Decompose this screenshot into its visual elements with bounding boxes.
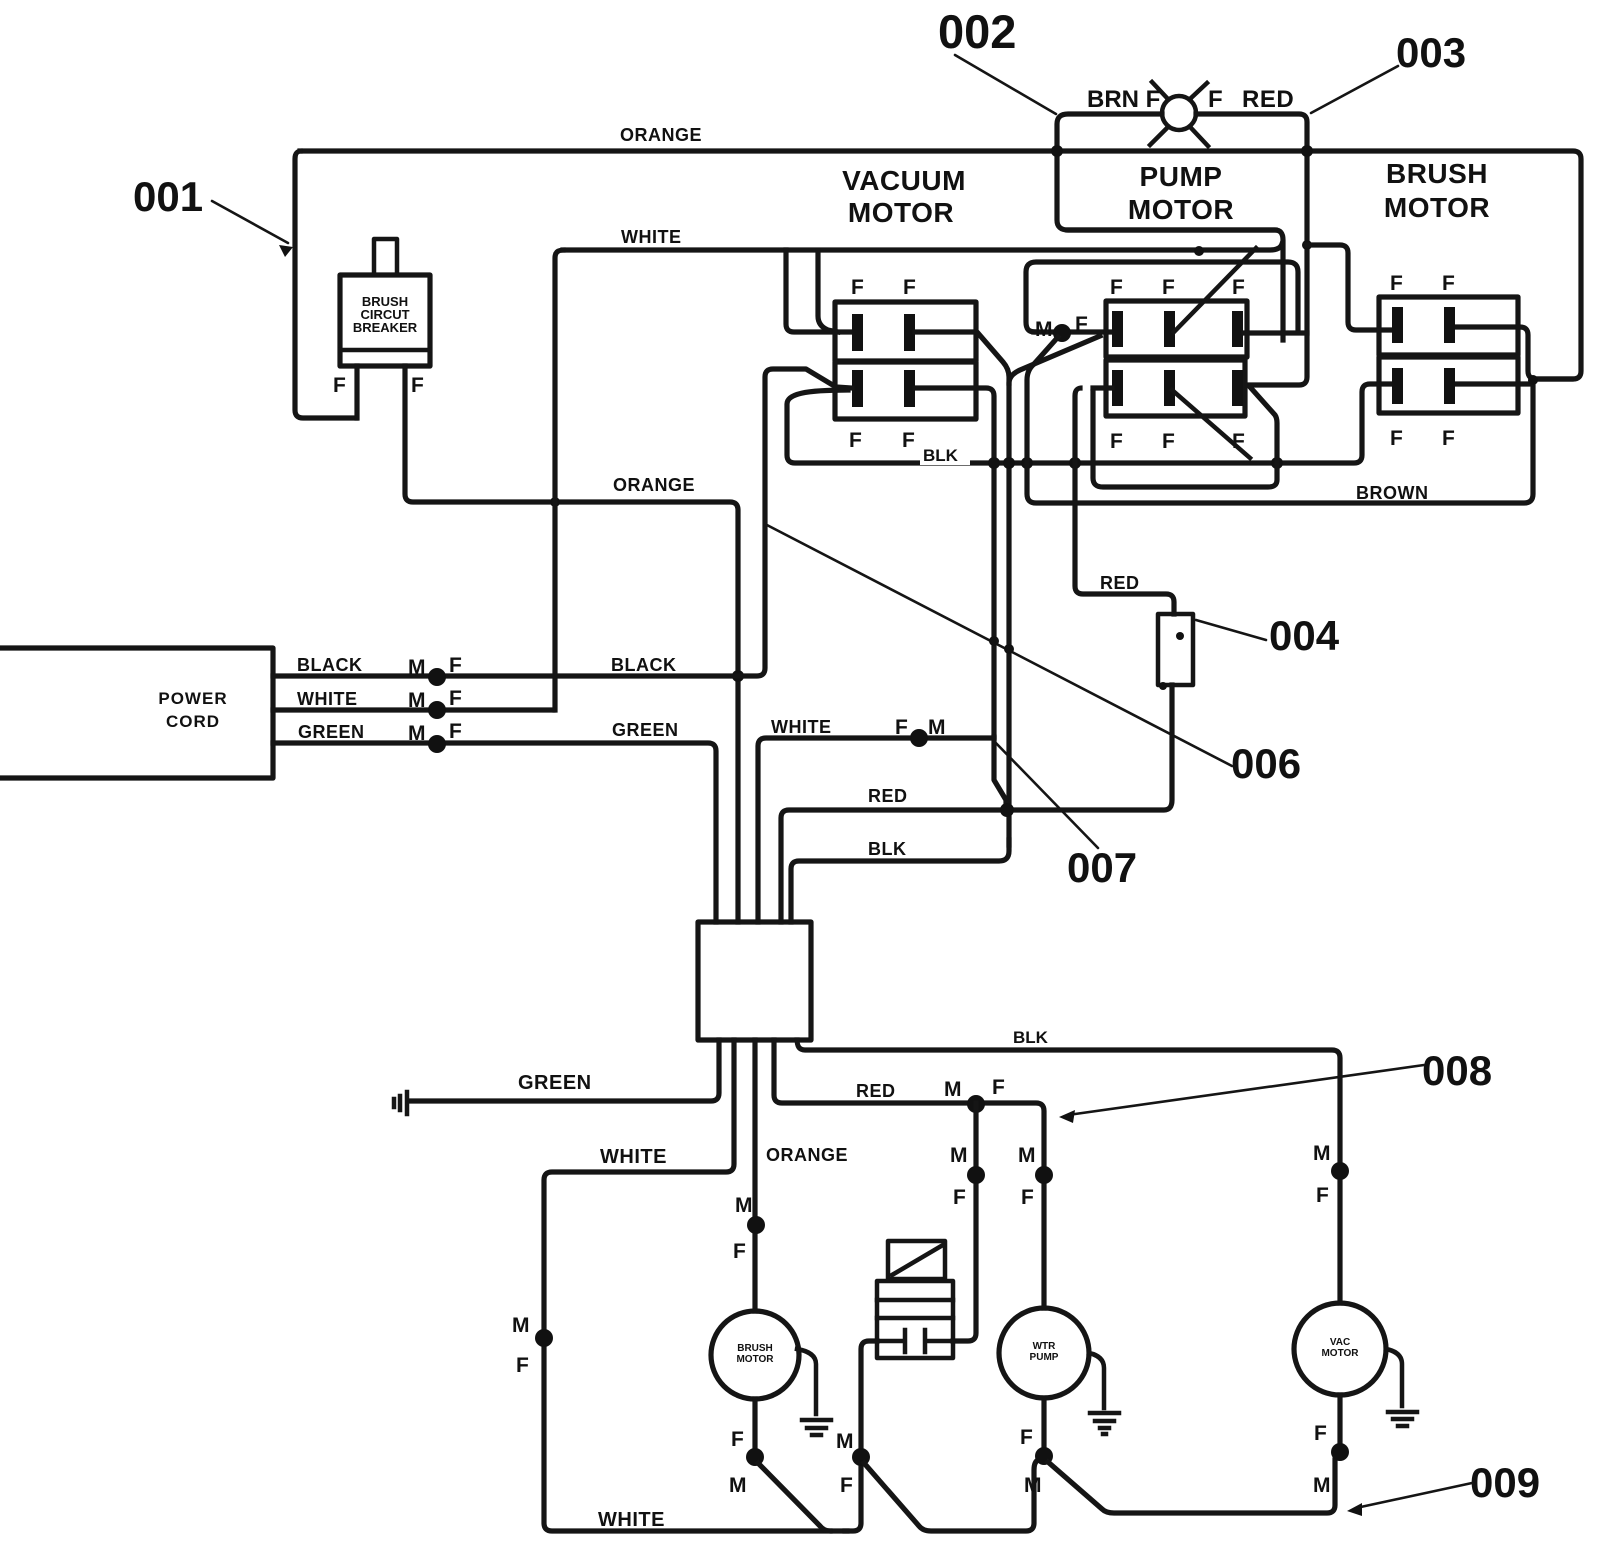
svg-text:RED: RED (1100, 573, 1140, 593)
junction brown top (1528, 375, 1538, 385)
svg-text:MOTOR: MOTOR (1128, 194, 1234, 225)
wire white from power cord (273, 707, 553, 712)
svg-text:M: M (408, 722, 426, 745)
svg-text:002: 002 (938, 5, 1016, 58)
wire vacuum LR lead (915, 388, 994, 737)
wire pump lower container (1093, 387, 1277, 487)
svg-text:F: F (840, 1474, 853, 1497)
svg-text:BRUSH: BRUSH (737, 1343, 773, 1354)
svg-text:F: F (1020, 1426, 1033, 1449)
junction orange-white crossing (550, 497, 560, 507)
svg-text:M: M (1018, 1144, 1036, 1167)
ground G3 (1090, 1413, 1119, 1434)
diagonal D1 brown from M dot (1027, 337, 1533, 503)
svg-text:GREEN: GREEN (298, 722, 365, 742)
svg-text:M: M (408, 689, 426, 712)
svg-text:M: M (1024, 1474, 1042, 1497)
svg-text:F: F (449, 720, 462, 743)
svg-text:WHITE: WHITE (621, 227, 682, 247)
power cord box (0, 648, 273, 778)
junction lamp-left x orange bus (1051, 145, 1063, 157)
svg-text:POWER: POWER (158, 689, 227, 708)
svg-text:F: F (1442, 427, 1455, 450)
svg-text:F: F (895, 716, 908, 739)
wire pump upper middle diagonal (1174, 248, 1256, 332)
ground G4 (1388, 1412, 1417, 1426)
svg-text:ORANGE: ORANGE (766, 1145, 848, 1165)
wire brush diagonal to rail (758, 1463, 830, 1531)
svg-text:MOTOR: MOTOR (1384, 192, 1490, 223)
svg-text:ORANGE: ORANGE (620, 125, 702, 145)
svg-text:BLK: BLK (1013, 1028, 1049, 1047)
svg-text:RED: RED (868, 786, 908, 806)
svg-text:RED: RED (1242, 86, 1294, 113)
wire blk mid (791, 840, 1009, 922)
svg-text:VAC: VAC (1330, 1337, 1350, 1348)
svg-text:BLACK: BLACK (297, 655, 363, 675)
svg-text:BREAKER: BREAKER (353, 320, 418, 335)
wire brush lower right lead (1456, 381, 1531, 386)
motor pump circle (999, 1308, 1089, 1398)
svg-text:BLK: BLK (923, 446, 959, 465)
connector dot red bottom (967, 1095, 985, 1113)
svg-text:008: 008 (1422, 1047, 1492, 1094)
svg-text:PUMP: PUMP (1140, 161, 1223, 192)
svg-text:MOTOR: MOTOR (736, 1354, 774, 1365)
junction orange-black crossing (732, 670, 744, 682)
callout 009 leader (1356, 1483, 1472, 1508)
svg-text:WTR: WTR (1033, 1341, 1057, 1352)
svg-text:M: M (944, 1078, 962, 1101)
wire red bottom (774, 1040, 1044, 1308)
vacuum switch lower box (835, 362, 976, 419)
pump contact bars lower (1112, 370, 1123, 406)
svg-text:F: F (1208, 86, 1223, 113)
svg-text:F: F (449, 654, 462, 677)
svg-text:F: F (731, 1428, 744, 1451)
vacuum contact bar UR (904, 314, 915, 351)
solenoid capacitor plates (877, 1330, 953, 1352)
svg-text:ORANGE: ORANGE (613, 475, 695, 495)
connector dot pump M F (1053, 324, 1071, 342)
svg-text:BROWN: BROWN (1356, 483, 1429, 503)
svg-text:F: F (333, 374, 346, 397)
svg-text:F: F (992, 1076, 1005, 1099)
wire pump motor right to ground (1089, 1353, 1104, 1408)
wire pump lower left lead (1093, 385, 1112, 390)
svg-text:009: 009 (1470, 1459, 1540, 1506)
wire vac motor right to ground (1386, 1349, 1402, 1406)
wire vacuum UR lead (915, 332, 1009, 845)
svg-text:F: F (851, 276, 864, 299)
callout 008 leader (1068, 1065, 1424, 1115)
svg-text:M: M (950, 1144, 968, 1167)
pump outer container top (1068, 227, 1275, 232)
wire white mid F M (758, 738, 994, 922)
wire white top (555, 250, 563, 710)
svg-text:M: M (408, 656, 426, 679)
svg-text:WHITE: WHITE (771, 717, 832, 737)
svg-text:F: F (849, 429, 862, 452)
callout 007 leader (992, 739, 1098, 848)
wire solenoid left branch (845, 1341, 877, 1531)
svg-text:BRN F: BRN F (1087, 86, 1160, 113)
wire pump lower middle diagonal (1172, 390, 1250, 458)
solenoid valve body (877, 1281, 953, 1358)
ground G2 (802, 1420, 831, 1435)
wire orange top bus (300, 151, 1581, 379)
svg-text:F: F (953, 1186, 966, 1209)
svg-text:M: M (729, 1474, 747, 1497)
wire pump diagonal to right rail (1048, 1460, 1335, 1513)
svg-text:F: F (902, 429, 915, 452)
vacuum contact bar UL (852, 314, 863, 351)
svg-text:F: F (1075, 313, 1088, 336)
wire brush motor bottom (752, 1399, 757, 1452)
circuit breaker CB1 body (340, 275, 430, 366)
svg-text:F: F (1021, 1186, 1034, 1209)
svg-text:WHITE: WHITE (598, 1509, 665, 1531)
connector dot green (428, 735, 446, 753)
svg-text:F: F (1316, 1184, 1329, 1207)
wire container branch into vacuum switch (818, 251, 838, 332)
wire x994 lower jog (994, 737, 1006, 808)
pump inner rounded rect (1026, 262, 1298, 332)
connector dot white mid (910, 729, 928, 747)
svg-text:F: F (1162, 276, 1175, 299)
svg-text:GREEN: GREEN (612, 720, 679, 740)
callout 006 leader long diagonal (765, 524, 1232, 766)
svg-text:F: F (411, 374, 424, 397)
brush switch upper box (1379, 297, 1518, 355)
wire black from power cord (273, 369, 852, 676)
junction dot on line y250 (1194, 246, 1204, 256)
pump switch M F lead (1034, 329, 1112, 334)
junction box J1 (698, 922, 811, 1040)
vacuum contact bar LL (852, 370, 863, 407)
junction lamp-right x orange bus (1301, 145, 1313, 157)
wire solenoid right branch (953, 1103, 976, 1341)
svg-text:BLK: BLK (868, 839, 907, 859)
callout 001 leader (212, 201, 288, 243)
wire orange bottom (752, 1040, 757, 1311)
circuit breaker CB1 inner line (340, 348, 430, 353)
component 004 resistor box (1158, 614, 1193, 685)
wire breaker right pin to orange mid (405, 366, 738, 922)
wire blk bottom (797, 1040, 1340, 1303)
wire mid rail to pump dot (864, 1460, 1038, 1531)
svg-text:GREEN: GREEN (518, 1072, 592, 1094)
wire red upper from pump lower-left (1075, 388, 1174, 614)
svg-text:VACUUM: VACUUM (842, 165, 966, 196)
callout 002 leader (955, 55, 1056, 114)
callout 004 leader (1196, 620, 1266, 640)
lamp L1 (1162, 96, 1196, 130)
wire red mid (781, 685, 1172, 922)
svg-text:MOTOR: MOTOR (1321, 1348, 1359, 1359)
wire vac motor bottom (1337, 1395, 1342, 1452)
wire blk loop from vacuum LL (787, 384, 1392, 463)
wire green from power cord (273, 743, 716, 922)
node BLK label (920, 444, 970, 465)
wire brush upper right lead (1456, 327, 1571, 379)
vacuum contact bar LR (904, 370, 915, 407)
vacuum switch upper box (835, 302, 976, 361)
wire breaker left pin (354, 366, 359, 418)
solenoid valve assembly top rect (888, 1241, 945, 1279)
junction at 1307,245 (1302, 240, 1312, 250)
svg-text:F: F (1162, 430, 1175, 453)
svg-text:F: F (903, 276, 916, 299)
svg-text:001: 001 (133, 173, 203, 220)
svg-text:F: F (449, 687, 462, 710)
svg-text:F: F (1110, 430, 1123, 453)
svg-text:CORD: CORD (166, 712, 220, 731)
motor vac circle (1294, 1303, 1386, 1395)
wire white bottom (544, 1040, 847, 1531)
pump switch upper box (1106, 301, 1247, 357)
brush contact bars (1392, 307, 1403, 343)
svg-text:F: F (1442, 272, 1455, 295)
svg-text:004: 004 (1269, 612, 1340, 659)
wire outer loop left side 001 (295, 151, 356, 418)
circuit breaker CB1 top tab (374, 239, 397, 275)
callout 003 leader (1311, 66, 1398, 113)
junction dots on y463 (988, 457, 1000, 469)
svg-text:M: M (1313, 1474, 1331, 1497)
connector dot black (428, 668, 446, 686)
wire pump motor bottom (1041, 1398, 1046, 1452)
svg-text:RED: RED (856, 1081, 896, 1101)
svg-text:006: 006 (1231, 740, 1301, 787)
svg-text:F: F (733, 1240, 746, 1263)
svg-text:F: F (1232, 276, 1245, 299)
ground G1 (394, 1092, 407, 1114)
svg-text:M: M (1035, 318, 1053, 341)
svg-text:F: F (516, 1354, 529, 1377)
svg-text:BRUSH: BRUSH (1386, 158, 1488, 189)
svg-text:BLACK: BLACK (611, 655, 677, 675)
wire pump upper right lead (1244, 330, 1307, 335)
lamp assembly box 002/003 (1057, 114, 1283, 340)
wire green bottom to ground (410, 1040, 719, 1101)
svg-text:F: F (1314, 1422, 1327, 1445)
pump switch lower box (1106, 360, 1245, 416)
wire from pump-right vertical to brush switch (1307, 245, 1392, 330)
svg-text:M: M (836, 1430, 854, 1453)
connector dot white (428, 701, 446, 719)
diagonal D2 from F lead (1009, 336, 1100, 383)
svg-text:F: F (1110, 276, 1123, 299)
svg-text:003: 003 (1396, 29, 1466, 76)
svg-text:MOTOR: MOTOR (848, 197, 954, 228)
svg-text:F: F (1390, 272, 1403, 295)
svg-text:PUMP: PUMP (1030, 1352, 1059, 1363)
svg-text:M: M (512, 1314, 530, 1337)
pump contact bars upper (1112, 311, 1123, 347)
svg-text:M: M (735, 1194, 753, 1217)
svg-text:007: 007 (1067, 844, 1137, 891)
motor brush circle (711, 1311, 799, 1399)
brush switch lower box (1379, 357, 1518, 413)
lamp L1 rays (1150, 82, 1208, 146)
svg-text:M: M (1313, 1142, 1331, 1165)
wire brush motor right to ground (797, 1349, 816, 1414)
svg-text:M: M (928, 716, 946, 739)
junction dot red mid (1000, 803, 1014, 817)
svg-text:WHITE: WHITE (600, 1146, 667, 1168)
wire white branch into vacuum switch (786, 250, 852, 332)
svg-text:F: F (1390, 427, 1403, 450)
svg-text:WHITE: WHITE (297, 689, 358, 709)
